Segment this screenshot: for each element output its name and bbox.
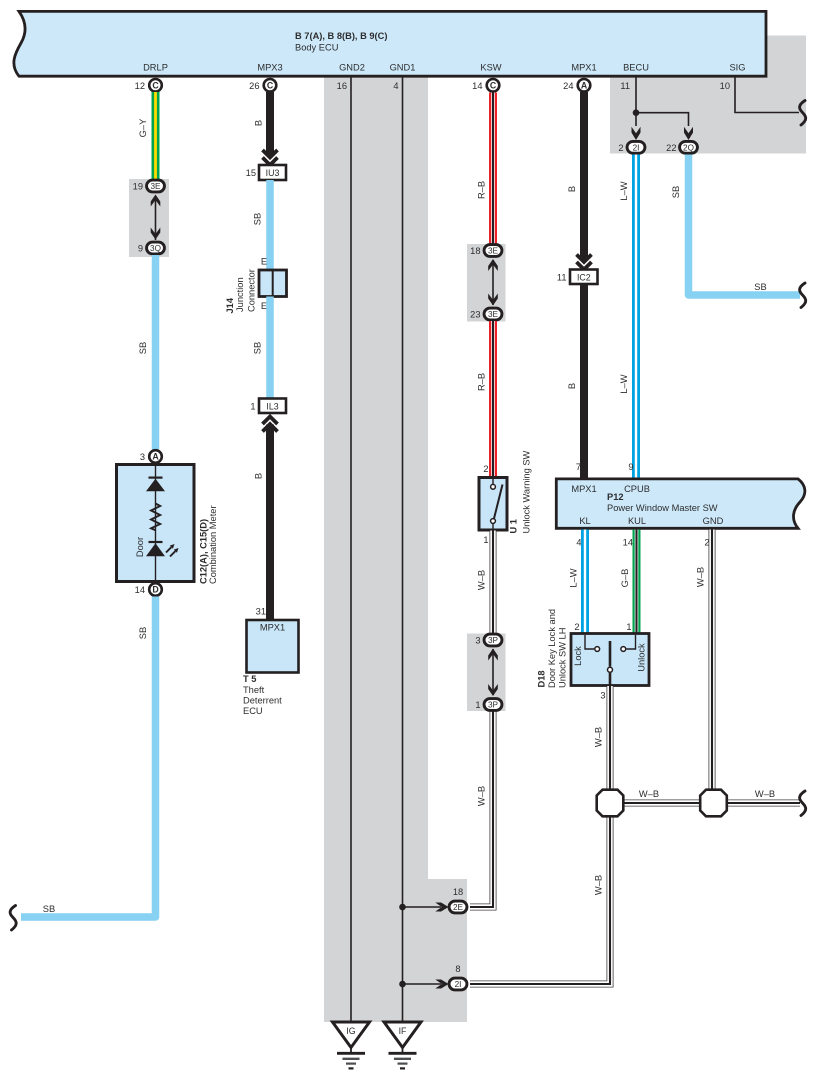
svg-text:Unlock: Unlock [637, 643, 647, 672]
branch wire to 2Q [636, 113, 689, 126]
arrow into 2Q [684, 127, 693, 140]
svg-text:9: 9 [138, 244, 143, 254]
svg-text:16: 16 [337, 81, 347, 91]
svg-text:1: 1 [626, 622, 631, 632]
wire SB from 3Q to meter pin A [152, 255, 160, 450]
wire to 2I connector [403, 983, 442, 985]
svg-text:CPUB: CPUB [624, 484, 650, 494]
arrow into 2I [632, 127, 641, 140]
svg-text:KL: KL [579, 516, 590, 526]
wire W-B from U1 pin 1 to 3P [490, 531, 497, 635]
wire to 2E connector [403, 906, 442, 908]
break squiggle SIG [800, 101, 806, 126]
diode [149, 477, 163, 479]
resistor [151, 504, 160, 531]
connector oval 3 3P [484, 634, 502, 646]
wire G-B from P12 KUL to D18 pin 1 [633, 530, 641, 635]
connector box 1 IL3 [259, 399, 286, 414]
svg-text:4: 4 [576, 538, 581, 548]
svg-text:W–B: W–B [594, 727, 604, 747]
connector oval 18 3E [484, 245, 502, 257]
svg-text:A: A [152, 452, 159, 462]
svg-text:IC2: IC2 [577, 272, 591, 282]
unlock warning switch U1 [479, 478, 507, 531]
svg-text:GND2: GND2 [339, 63, 365, 73]
connector oval 9 3Q [147, 242, 165, 254]
svg-text:Deterrent: Deterrent [243, 696, 282, 706]
wire L-W from 2I to P12 CPUB pin 9 [632, 155, 640, 479]
svg-text:IG: IG [346, 1026, 355, 1036]
svg-text:2I: 2I [455, 980, 462, 989]
svg-text:26: 26 [249, 81, 259, 91]
pin 26 C (MPX3) [264, 79, 277, 92]
power window master switch P12 [556, 479, 805, 528]
svg-text:G–B: G–B [620, 569, 630, 588]
wire W-B between octagon nodes [622, 800, 701, 807]
svg-text:3E: 3E [488, 247, 499, 256]
svg-text:2I: 2I [633, 143, 640, 152]
wire B from IC2 to P12 pin 7 [580, 284, 588, 478]
svg-text:Unlock Warning SW: Unlock Warning SW [522, 450, 532, 533]
break squiggle left [10, 906, 16, 931]
wire SB from 2Q down then right to edge [689, 155, 801, 296]
octagon junction node 1 [597, 790, 624, 817]
svg-text:Connector: Connector [247, 269, 257, 312]
theft deterrent ECU box T5 [247, 620, 299, 673]
connector box 15 IU3 [259, 165, 286, 180]
svg-text:2: 2 [574, 622, 579, 632]
svg-text:SB: SB [754, 282, 766, 292]
svg-text:2Q: 2Q [683, 143, 694, 152]
wire R-B from 3E to U1 pin 2 [489, 321, 497, 478]
svg-text:L–W: L–W [569, 568, 579, 587]
svg-text:SB: SB [138, 627, 148, 639]
svg-text:Lock: Lock [573, 646, 583, 666]
svg-text:2: 2 [483, 464, 488, 474]
svg-text:W–B: W–B [755, 789, 775, 799]
connector oval 2 2I [627, 141, 645, 153]
svg-text:3: 3 [475, 636, 480, 646]
svg-text:W–B: W–B [639, 789, 659, 799]
double arrow between 3E and 3Q [155, 196, 157, 240]
ground IF [384, 1022, 421, 1048]
svg-text:Door Key Lock and: Door Key Lock and [547, 609, 557, 688]
svg-text:Theft: Theft [243, 685, 265, 695]
wire B from pin 24 to IC2 with chevron arrow [580, 92, 588, 260]
svg-text:1: 1 [475, 700, 480, 710]
svg-text:3P: 3P [488, 636, 499, 645]
svg-text:P12: P12 [607, 492, 624, 502]
svg-text:1: 1 [250, 401, 255, 411]
combination meter box C12(A) C15(D) [117, 465, 195, 582]
wire SB from meter pin D down and left to edge [21, 597, 156, 918]
svg-text:B: B [254, 120, 264, 126]
svg-text:14: 14 [135, 585, 145, 595]
wire R-B from pin 14 to 3E [489, 93, 497, 245]
ground IG [333, 1022, 370, 1048]
svg-text:ECU: ECU [243, 706, 263, 716]
svg-text:7: 7 [576, 462, 581, 472]
svg-text:23: 23 [470, 310, 480, 320]
svg-text:KUL: KUL [628, 516, 646, 526]
door key lock and unlock switch D18 [571, 634, 649, 686]
svg-text:E: E [261, 257, 267, 267]
break squiggle SB right [800, 283, 806, 308]
connector oval 1 3P [484, 699, 502, 711]
svg-text:T 5: T 5 [243, 674, 256, 684]
shield box around 3P 3P connectors [467, 634, 506, 712]
svg-text:18: 18 [470, 246, 480, 256]
svg-text:B: B [567, 383, 577, 389]
svg-text:D18: D18 [537, 670, 547, 687]
svg-text:22: 22 [666, 143, 676, 153]
pin 14 C (KSW) [487, 79, 500, 92]
svg-text:C: C [490, 80, 497, 90]
svg-text:J14: J14 [225, 297, 235, 313]
svg-text:Body ECU: Body ECU [295, 43, 338, 53]
connector oval 23 3E [484, 308, 502, 320]
junction node on GND1 to 2I [399, 981, 406, 988]
svg-text:C12(A), C15(D): C12(A), C15(D) [199, 519, 209, 584]
svg-text:GND: GND [703, 516, 724, 526]
svg-text:R–B: R–B [477, 181, 487, 199]
svg-text:IL3: IL3 [266, 401, 278, 411]
double arrow between 3E and 3E [492, 260, 494, 305]
wire G-Y from pin 12 to 3E [152, 92, 160, 180]
svg-text:SB: SB [253, 213, 263, 225]
svg-text:MPX1: MPX1 [571, 484, 596, 494]
svg-text:D: D [152, 585, 158, 595]
wire W-B from octagon node 2 to right edge [726, 800, 800, 807]
wire W-B from 3P down and left into 2E [470, 710, 493, 907]
svg-text:31: 31 [256, 607, 266, 617]
pin 12 C (DRLP) [149, 79, 162, 92]
svg-text:3E: 3E [488, 310, 499, 319]
svg-text:U 1: U 1 [509, 519, 519, 533]
svg-text:GND1: GND1 [390, 63, 416, 73]
svg-text:L–W: L–W [619, 181, 629, 200]
LED with arrows [149, 541, 163, 543]
svg-text:MPX1: MPX1 [571, 63, 596, 73]
svg-text:15: 15 [246, 168, 256, 178]
ground bus shield band [324, 74, 428, 1022]
double arrow between 3P and 3P [492, 649, 494, 695]
wire W-B from D18 pin 3 to octagon node [607, 686, 614, 790]
svg-text:IF: IF [399, 1026, 407, 1036]
wire W-B from octagon node down and left into 2I [470, 816, 610, 984]
svg-text:MPX3: MPX3 [257, 63, 282, 73]
svg-text:Combination Meter: Combination Meter [208, 505, 218, 584]
svg-text:BECU: BECU [623, 63, 649, 73]
svg-text:W–B: W–B [477, 570, 487, 590]
svg-text:W–B: W–B [696, 567, 706, 587]
svg-text:4: 4 [393, 81, 398, 91]
junction dot BECU branch [633, 109, 640, 116]
junction node on GND1 to 2E [399, 904, 406, 911]
svg-text:B: B [254, 473, 264, 479]
svg-text:MPX1: MPX1 [260, 623, 285, 633]
svg-text:3: 3 [600, 691, 605, 701]
wire SB from IU3 to J14 [266, 180, 274, 270]
pin 14 D of combination meter [149, 583, 162, 596]
svg-text:B: B [567, 186, 577, 192]
internal wire [155, 465, 157, 581]
svg-text:12: 12 [135, 81, 145, 91]
svg-text:1: 1 [483, 535, 488, 545]
svg-text:Junction: Junction [235, 277, 245, 312]
svg-text:9: 9 [628, 462, 633, 472]
break squiggle W-B right [800, 791, 806, 816]
wire L-W from P12 KL to D18 pin 2 [581, 530, 589, 635]
svg-text:Door: Door [135, 537, 145, 557]
svg-text:SB: SB [43, 904, 55, 914]
WIRES-LAYER [470, 710, 610, 984]
svg-text:11: 11 [620, 81, 630, 91]
svg-text:SB: SB [138, 342, 148, 354]
svg-text:A: A [581, 80, 588, 90]
svg-text:C: C [267, 80, 274, 90]
svg-text:G–Y: G–Y [138, 119, 148, 138]
shield area around 2E 2I connectors [428, 879, 467, 1022]
svg-text:C: C [152, 80, 159, 90]
svg-text:B 7(A), B 8(B), B 9(C): B 7(A), B 8(B), B 9(C) [295, 31, 387, 41]
connector box 11 IC2 [570, 270, 598, 285]
svg-text:3E: 3E [150, 182, 161, 191]
svg-text:L–W: L–W [619, 374, 629, 393]
svg-text:SIG: SIG [729, 63, 745, 73]
svg-text:2E: 2E [453, 903, 464, 912]
GND1 wire line [402, 76, 404, 1022]
svg-text:Power Window Master SW: Power Window Master SW [607, 503, 718, 513]
svg-text:19: 19 [133, 182, 143, 192]
svg-text:14: 14 [623, 538, 633, 548]
BODY ECU box B 7(A), B 8(B), B 9(C) [14, 11, 766, 76]
svg-text:14: 14 [472, 81, 482, 91]
connector oval 19 3E [147, 180, 165, 192]
svg-text:KSW: KSW [480, 63, 501, 73]
octagon junction node 2 [700, 790, 727, 817]
BECU lead down [635, 76, 637, 126]
GND2 wire line [350, 76, 352, 1022]
SIG lead down and right to edge [735, 76, 799, 113]
svg-text:W–B: W–B [477, 786, 487, 806]
svg-text:E: E [261, 301, 267, 311]
pin 24 A (MPX1) [578, 79, 591, 92]
junction connector J14 [259, 270, 287, 297]
svg-text:11: 11 [557, 273, 567, 283]
svg-text:18: 18 [453, 887, 463, 897]
svg-text:R–B: R–B [477, 373, 487, 391]
shield area top right BECU SIG [610, 36, 806, 154]
wire W-B from P12 GND to octagon node [709, 530, 716, 791]
shield box around 3E 3E connectors middle [467, 244, 506, 322]
svg-text:2: 2 [618, 143, 623, 153]
svg-text:DRLP: DRLP [143, 63, 168, 73]
svg-text:SB: SB [671, 186, 681, 198]
svg-text:3: 3 [140, 452, 145, 462]
svg-text:8: 8 [455, 964, 460, 974]
wire B from IL3 to T5 with up chevrons [266, 425, 274, 621]
svg-text:24: 24 [563, 81, 573, 91]
connector oval 8 2I [449, 978, 467, 990]
shield box around 3E 3Q connectors left [129, 179, 169, 257]
svg-text:10: 10 [720, 81, 730, 91]
pin 3 A of combination meter [149, 450, 162, 463]
svg-text:SB: SB [253, 342, 263, 354]
svg-text:W–B: W–B [594, 875, 604, 895]
svg-text:Unlock SW LH: Unlock SW LH [558, 628, 568, 688]
svg-text:3Q: 3Q [150, 244, 161, 253]
wire SB from J14 to IL3 [266, 297, 274, 400]
connector oval 22 2Q [680, 141, 698, 153]
svg-text:IU3: IU3 [266, 168, 280, 178]
wire B from pin 26 to IU3 with chevron arrow [266, 92, 274, 156]
svg-text:3P: 3P [488, 701, 499, 710]
connector oval 18 2E [449, 901, 467, 913]
